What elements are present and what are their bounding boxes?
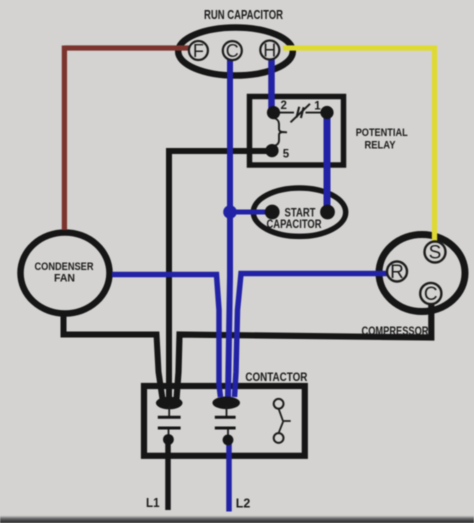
svg-text:CAPACITOR: CAPACITOR [267, 219, 323, 231]
svg-text:START: START [285, 208, 316, 220]
svg-text:5: 5 [283, 149, 290, 161]
svg-text:CONTACTOR: CONTACTOR [245, 372, 308, 384]
svg-text:C: C [424, 284, 438, 305]
svg-text:C: C [226, 41, 239, 61]
svg-text:F: F [193, 41, 204, 61]
svg-text:2: 2 [281, 100, 287, 112]
svg-text:CONDENSER: CONDENSER [35, 261, 94, 273]
svg-text:1: 1 [314, 100, 321, 112]
svg-text:POTENTIAL: POTENTIAL [356, 127, 408, 139]
svg-text:RELAY: RELAY [365, 140, 397, 152]
svg-text:H: H [263, 41, 276, 61]
svg-text:L2: L2 [236, 496, 251, 511]
svg-text:COMPRESSOR: COMPRESSOR [362, 324, 429, 338]
svg-text:FAN: FAN [54, 273, 75, 285]
svg-text:R: R [390, 262, 404, 283]
svg-text:RUN CAPACITOR: RUN CAPACITOR [204, 7, 283, 22]
svg-text:S: S [429, 243, 442, 264]
svg-text:L1: L1 [146, 495, 160, 510]
